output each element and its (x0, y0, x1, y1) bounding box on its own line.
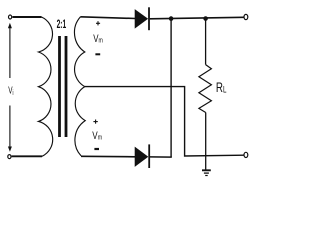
svg-text:2:1: 2:1 (57, 18, 67, 32)
svg-text:Vi: Vi (8, 84, 13, 98)
svg-text:Vm: Vm (93, 33, 103, 46)
svg-text:Vm: Vm (92, 130, 102, 143)
svg-text:RL: RL (216, 79, 227, 95)
